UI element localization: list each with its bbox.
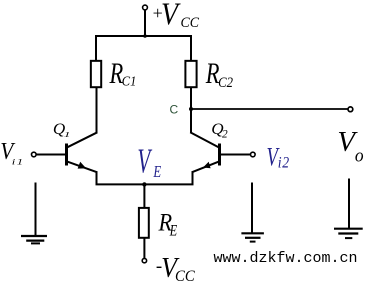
wire RC2 to Q2 collector (through node C)	[190, 88, 192, 133]
resistor RE	[139, 208, 149, 238]
svg-text:CC: CC	[175, 269, 196, 284]
svg-text:C2: C2	[218, 74, 233, 90]
junction top bus / VCC	[143, 34, 147, 38]
label Q2	[211, 121, 228, 141]
label +VCC	[153, 0, 200, 32]
ground G2 (under Vi2)	[241, 183, 264, 242]
wire bus to RC1	[95, 35, 97, 60]
resistor RC1	[91, 61, 101, 87]
label RE	[158, 209, 178, 240]
ground G1 (under Vi1)	[21, 183, 47, 244]
ground G3 (under Vo)	[334, 179, 363, 239]
wire RC1 to Q1 collector	[96, 88, 98, 133]
svg-text:E: E	[153, 163, 162, 181]
terminal Vi1	[32, 152, 37, 157]
resistor RC2	[185, 61, 196, 87]
terminal +VCC	[143, 5, 148, 10]
label RC2	[205, 56, 233, 90]
label -VCC	[156, 252, 196, 284]
svg-text:o: o	[355, 145, 364, 166]
svg-text:i2: i2	[278, 155, 290, 172]
transistor Q1	[67, 132, 98, 185]
wire RE to -VCC terminal	[143, 239, 145, 259]
junction emitter bus / RE	[142, 182, 146, 186]
wire emitter bus	[96, 183, 194, 185]
terminal -VCC	[142, 258, 146, 262]
terminal Vi2	[251, 152, 256, 157]
transistor Q2	[190, 132, 219, 185]
terminal output	[348, 107, 353, 112]
label Vo	[337, 126, 363, 166]
svg-text:C1: C1	[122, 73, 136, 89]
wire Vi1 to Q1 base	[36, 154, 65, 156]
svg-text:i1: i1	[12, 158, 25, 166]
wire output	[191, 108, 348, 110]
wire Q2 base to Vi2	[221, 154, 251, 156]
node C junction dot	[189, 107, 193, 111]
label node C	[170, 103, 179, 117]
label Q1	[53, 121, 70, 140]
wire from +VCC terminal to top bus	[144, 10, 146, 37]
watermark www.dzkfw.com.cn	[214, 250, 358, 267]
svg-text:www.dzkfw.com.cn: www.dzkfw.com.cn	[214, 250, 358, 267]
wire bus to RE	[143, 184, 145, 207]
label VE	[137, 142, 161, 181]
label Vi1	[0, 138, 24, 167]
svg-text:2: 2	[222, 128, 228, 140]
label Vi2	[267, 142, 290, 171]
svg-text:C: C	[170, 103, 179, 117]
svg-text:1: 1	[64, 131, 71, 139]
wire top bus	[95, 35, 192, 37]
svg-text:E: E	[169, 222, 178, 240]
svg-text:CC: CC	[181, 15, 200, 32]
label RC1	[109, 56, 137, 90]
wire bus to RC2	[190, 35, 192, 60]
